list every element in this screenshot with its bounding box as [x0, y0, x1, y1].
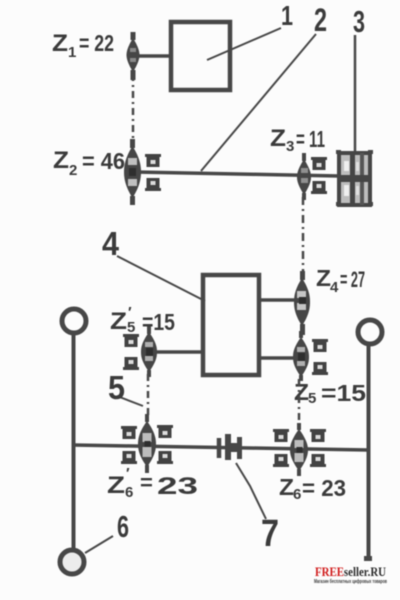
svg-text:=15: =15 [321, 380, 366, 406]
bearing lower right of Z6 [310, 454, 326, 467]
bearing lower left of Z5' [123, 357, 139, 370]
leader to label 7 [236, 463, 266, 519]
svg-text:= 11: = 11 [296, 126, 325, 152]
gear Z5 [293, 331, 309, 381]
shaft: gearbox to gear Z4 [259, 298, 302, 302]
label Z1 = 22 [52, 30, 114, 61]
leader to label 1 [207, 28, 281, 60]
svg-text:= 22: = 22 [79, 30, 114, 56]
axis line Z5'-Z6' (dash-dot) [147, 374, 150, 419]
bearing lower left of Z6 [273, 454, 289, 467]
axis line Z3-Z4 (dash-dot) [302, 197, 305, 277]
svg-text:Z: Z [52, 30, 68, 57]
label Z2 = 46 [53, 147, 125, 179]
svg-text:3: 3 [286, 138, 294, 155]
gear Z2 [124, 139, 141, 205]
gear Z5' [141, 326, 157, 377]
svg-text:Z: Z [270, 125, 286, 152]
label Z6' = 23 [107, 465, 198, 501]
bearing upper left of Z6 [273, 429, 289, 442]
shaft IV (bottom horizontal) [73, 445, 368, 450]
bearing upper left of Z5' [123, 334, 139, 347]
svg-text:4: 4 [330, 279, 339, 296]
svg-text:5: 5 [108, 369, 125, 406]
leader to label 6 [85, 536, 113, 553]
gear Z6' [138, 414, 156, 473]
svg-text:= 23: = 23 [302, 475, 346, 501]
clutch 7 [219, 434, 240, 460]
svg-text:23: 23 [157, 473, 198, 500]
svg-text:6: 6 [125, 484, 133, 501]
bearing lower right of Z2 [145, 178, 161, 191]
leader to label 2 [201, 34, 316, 171]
gear Z6 [290, 423, 308, 476]
gear Z3 [297, 153, 311, 200]
svg-text:7: 7 [261, 513, 279, 555]
leader line of label 3 [354, 35, 357, 175]
svg-text:2: 2 [69, 162, 77, 179]
bearing upper right of Z5 [312, 339, 328, 352]
gear Z4 [294, 271, 310, 335]
right wheel (upper circle) [358, 320, 382, 344]
label Z5 = 15 [294, 379, 366, 407]
shaft: gearbox to gear Z5 [259, 356, 300, 360]
shaft: gear Z1 to motor [136, 54, 171, 58]
axis line Z5-Z6 (dash-dot) [298, 379, 301, 428]
bearing lower right of Z3 [311, 181, 327, 194]
svg-text:=: = [140, 470, 153, 495]
svg-text:=15: =15 [142, 309, 175, 335]
label Z6 = 23 [279, 474, 346, 503]
gearbox block 4 [203, 275, 259, 375]
svg-text:4: 4 [102, 225, 120, 262]
svg-text:2: 2 [314, 2, 327, 38]
svg-text:′: ′ [126, 465, 130, 482]
svg-text:6: 6 [117, 509, 129, 544]
bearing lower right of Z6' [157, 451, 173, 464]
svg-text:Z: Z [316, 265, 331, 291]
left lower roller circle [60, 550, 84, 574]
svg-text:6: 6 [293, 486, 301, 503]
left wheel (upper circle) [62, 309, 86, 333]
leader to label 5 [117, 396, 143, 406]
gear Z1 [127, 32, 140, 80]
label Z3 = 11 [270, 125, 325, 155]
leader to label 4 [117, 256, 205, 301]
svg-text:= 46: = 46 [82, 148, 125, 174]
svg-text:5: 5 [127, 319, 135, 336]
svg-text:1: 1 [68, 44, 76, 61]
bearing lower right of Z5 [312, 362, 328, 375]
right column foot [364, 556, 372, 561]
svg-text:= 27: = 27 [340, 267, 365, 292]
svg-text:Магазин бесплатных цифровых то: Магазин бесплатных цифровых товаров [314, 578, 387, 585]
stepped pulley 3 [336, 150, 373, 206]
svg-text:FREEseller.RU: FREEseller.RU [315, 564, 387, 579]
svg-text:Z: Z [279, 474, 294, 500]
label Z5' = 15 [110, 304, 175, 336]
right column [367, 346, 371, 559]
shaft: gear Z5' to gearbox [152, 350, 205, 354]
svg-text:1: 1 [281, 0, 293, 31]
bearing upper right of Z6 [310, 429, 326, 442]
svg-text:3: 3 [353, 4, 365, 39]
axis line Z1-Z2 (dash-dot) [132, 74, 135, 146]
shaft I (horizontal, Z2 to pulley) [135, 172, 339, 176]
left column [72, 334, 76, 550]
svg-text:Z: Z [110, 308, 127, 335]
bearing lower left of Z6' [121, 451, 137, 464]
bearing upper right of Z6' [157, 425, 173, 438]
bearing upper right of Z2 [145, 154, 161, 167]
svg-text:Z: Z [107, 472, 125, 499]
svg-text:Z: Z [294, 379, 309, 405]
label Z4 = 27 [316, 265, 365, 296]
svg-text:5: 5 [308, 390, 316, 407]
motor M (block 1) [171, 22, 230, 90]
bearing upper left of Z6' [121, 426, 137, 439]
svg-text:Z: Z [53, 147, 69, 174]
bearing upper right of Z3 [311, 157, 327, 170]
